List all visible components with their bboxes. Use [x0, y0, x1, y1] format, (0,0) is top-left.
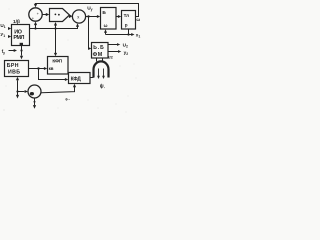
wire stub bus up into pentagon bottom	[55, 25, 57, 29]
flux arrow line 2	[103, 69, 105, 77]
arrowhead into dark box B5 left	[88, 47, 91, 50]
junction dot bottom bus	[16, 90, 18, 92]
box3	[101, 8, 117, 30]
arrowhead into box3 left	[97, 15, 100, 18]
arrowhead into box4 left	[118, 15, 121, 18]
flux arrowhead 2	[102, 76, 105, 79]
scan noise speckles	[4, 9, 137, 113]
pentagon inner dot 1	[55, 14, 57, 16]
pentagon block (converter)	[50, 9, 70, 22]
wire S1 to pentagon	[42, 14, 47, 16]
arrowhead bottom-left output down	[16, 95, 19, 99]
junction dot bus at S1	[34, 27, 36, 29]
wire bus from box1 output along y=28.5	[30, 25, 78, 29]
box1 (left upper block)	[12, 25, 30, 46]
arrowhead into S1 top	[34, 4, 37, 8]
wire box3 to box4	[116, 16, 119, 18]
arrowhead into box1 input U	[8, 27, 11, 30]
wire eps horizontal line y=34.5	[106, 34, 132, 36]
wire junction J2 down and right into wide box B6	[39, 69, 66, 80]
wide box B6	[69, 73, 91, 84]
wire stub bus up into S1 bottom	[35, 24, 37, 28]
svg-text:Тл: Тл	[124, 13, 130, 18]
wire bottom bus into circle S3	[18, 91, 25, 93]
arrowhead into mid box K1 left	[44, 67, 47, 70]
arrowhead into pentagon left	[46, 13, 50, 16]
svg-text:РМЛ: РМЛ	[13, 35, 24, 41]
junction dot on S2 output	[87, 15, 89, 17]
svg-text:БРН: БРН	[7, 63, 19, 69]
wire box2 bottom down to bottom bus	[17, 80, 19, 95]
svg-text:КФП: КФП	[52, 58, 62, 64]
wire box1 bottom down to box2 top	[21, 46, 23, 56]
junction dot bus at pentagon	[54, 27, 56, 29]
junction dot J2	[37, 67, 39, 69]
flux arrowhead 1	[97, 76, 100, 79]
arrowhead S3 bottom output down	[33, 105, 36, 109]
pentagon inner dot 2	[58, 14, 60, 16]
svg-text:кв: кв	[49, 66, 54, 71]
junction dot below S3	[34, 101, 36, 103]
arrowhead into wide box B6 bottom	[73, 84, 76, 87]
box1 bottom ink blob	[20, 43, 23, 45]
arrowhead into mid box K1 top	[54, 53, 57, 56]
svg-text:ω: ω	[104, 23, 108, 28]
arrowhead into S2 bottom	[76, 23, 79, 26]
arrowhead into box2 top	[20, 56, 23, 60]
svg-text:t/2: t/2	[108, 54, 113, 59]
arrowhead into S1 bottom	[34, 22, 37, 26]
svg-text:Б: Б	[102, 10, 106, 16]
junction dot on eps line	[127, 33, 129, 35]
flux arrow line 1	[98, 69, 100, 77]
svg-text:θ··: θ··	[65, 97, 70, 102]
wire S3 bottom output down	[34, 98, 36, 105]
wire pentagon to S2	[70, 14, 72, 17]
wire S2 to box3	[86, 16, 98, 18]
junction dot box1-box2 link	[20, 49, 22, 51]
multiplier circle S3	[28, 85, 41, 98]
wire output U2 from dark box	[108, 44, 117, 46]
summing circle S1	[29, 8, 42, 21]
arrowhead f input	[14, 49, 17, 52]
svg-text:ФМ: ФМ	[93, 52, 103, 58]
wire wide box B6 output to magnet core	[90, 77, 94, 79]
wire box4 bottom stub to eps line	[128, 29, 130, 35]
wire top feedback from box4 output to summing circle S1	[36, 4, 139, 17]
dark box B5	[92, 43, 109, 59]
svg-text:КФД: КФД	[71, 76, 82, 82]
wire output y2 from dark box	[108, 51, 118, 53]
magnet core dome	[94, 61, 109, 77]
arrowhead y2 output	[118, 50, 121, 53]
svg-text:ω: ω	[136, 17, 140, 22]
box2 (left lower block)	[5, 61, 29, 77]
arrowhead U2 output	[117, 43, 120, 46]
box4	[122, 11, 136, 30]
wire stub up into box3 bottom	[105, 32, 107, 34]
wire f input horizontal	[9, 50, 15, 52]
S3 inner ink blob	[30, 92, 34, 95]
wire stub bus down into mid box K1	[55, 29, 57, 54]
arrowhead eps output right	[131, 33, 134, 36]
wire branch down from junction to dark box B5	[88, 17, 90, 49]
arrowhead into S3 left	[25, 90, 28, 93]
svg-text:р: р	[125, 22, 128, 27]
arrowhead into box2 bottom (up)	[16, 77, 19, 80]
wire box2 right output to junction J2	[29, 68, 45, 70]
wire dark box B5 to magnet stubs	[97, 58, 103, 61]
arrowhead into box1 input V	[8, 35, 11, 38]
mid box K1	[48, 57, 69, 75]
arrowhead into S2 left	[69, 15, 72, 18]
svg-text:ИВБ: ИВБ	[8, 70, 20, 76]
wire S3 output right and up into wide box bottom	[41, 87, 75, 93]
arrowhead into wide box B6 left	[65, 78, 68, 81]
arrowhead into pentagon bottom	[54, 22, 57, 26]
svg-text:1/β: 1/β	[13, 19, 20, 25]
summing circle S2	[72, 10, 85, 23]
svg-text:Ь.Б: Ь.Б	[93, 45, 105, 51]
arrowhead into box3 bottom	[104, 29, 107, 32]
